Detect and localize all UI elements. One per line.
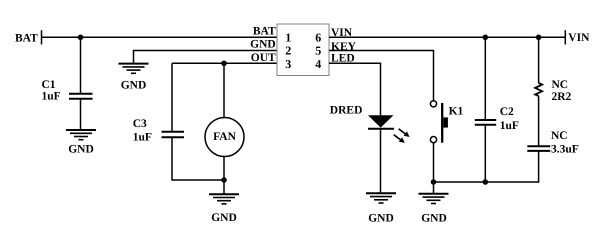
node junction C2 tap (483, 35, 489, 41)
wire C 3.3uF bottom (538, 151, 540, 183)
ground under DRED (366, 193, 396, 224)
wire bottom-right rail (434, 181, 539, 183)
svg-text:C2: C2 (500, 106, 514, 118)
port BAT (15, 30, 42, 44)
wire K1 ground drop (433, 182, 435, 194)
wire C2 top (484, 37, 486, 120)
node junction FAN tap on OUT (221, 61, 227, 67)
LED DRED (330, 105, 410, 143)
node junction C1 tap (78, 35, 84, 41)
wire R to C (538, 96, 540, 146)
wire BAT rail (42, 36, 278, 38)
svg-text:C3: C3 (133, 118, 147, 130)
capacitor C3 (133, 118, 184, 144)
svg-text:GND: GND (211, 212, 237, 224)
wire FAN bottom (223, 157, 225, 181)
ground under K1 (419, 194, 449, 225)
capacitor C2 (475, 106, 519, 132)
svg-text:GND: GND (250, 39, 276, 51)
wire K1 bottom (433, 143, 435, 182)
wire R top (538, 37, 540, 83)
capacitor NC 3.3uF (527, 130, 578, 156)
svg-text:DRED: DRED (330, 105, 363, 117)
svg-text:NC: NC (551, 130, 568, 142)
svg-text:1uF: 1uF (133, 132, 152, 144)
wire FAN ground drop (223, 180, 225, 194)
svg-text:GND: GND (368, 212, 394, 224)
svg-text:1: 1 (285, 30, 291, 44)
wire pin2 GND net (134, 51, 278, 63)
svg-text:KEY: KEY (331, 41, 357, 53)
wire C1 top (80, 37, 82, 93)
ground pin2 (119, 64, 149, 92)
node junction C2 rail (483, 179, 489, 185)
svg-text:GND: GND (121, 79, 147, 91)
svg-text:GND: GND (68, 144, 94, 156)
svg-text:4: 4 (315, 57, 321, 71)
port VIN (565, 30, 590, 44)
wire pin3 OUT net (172, 62, 277, 64)
resistor NC 2R2 (535, 79, 571, 103)
node junction K1 rail (431, 179, 437, 185)
wire LED net (329, 63, 381, 115)
svg-text:C1: C1 (42, 79, 56, 91)
ground under C1 (66, 130, 96, 156)
wire C2 bottom (484, 125, 486, 182)
op-amp U1 box (277, 24, 329, 76)
switch K1 (430, 101, 463, 143)
wire C3 bottom to rail (172, 137, 224, 180)
svg-text:GND: GND (421, 212, 447, 224)
svg-text:6: 6 (315, 30, 321, 44)
svg-text:3.3uF: 3.3uF (551, 144, 579, 156)
wire C1 bottom (80, 99, 82, 130)
wire C3 top (171, 63, 173, 131)
svg-text:BAT: BAT (253, 25, 276, 37)
ground under FAN (209, 194, 239, 224)
svg-text:2R2: 2R2 (552, 91, 572, 103)
svg-text:1uF: 1uF (42, 91, 61, 103)
wire KEY net (329, 51, 434, 101)
svg-text:OUT: OUT (251, 52, 276, 64)
svg-text:1uF: 1uF (500, 120, 519, 132)
wire FAN top (223, 63, 225, 118)
svg-text:FAN: FAN (213, 131, 236, 143)
capacitor C1 (42, 79, 93, 103)
svg-text:NC: NC (552, 79, 569, 91)
wire LED bottom (380, 129, 382, 194)
svg-text:3: 3 (285, 57, 291, 71)
svg-text:BAT: BAT (15, 33, 38, 45)
svg-text:VIN: VIN (568, 32, 590, 44)
svg-text:K1: K1 (449, 106, 464, 118)
svg-text:5: 5 (315, 44, 321, 58)
node junction FAN-C3 rail (221, 177, 227, 183)
motor FAN (205, 118, 244, 157)
wire VIN rail (329, 36, 565, 38)
svg-text:2: 2 (285, 44, 291, 58)
node junction R tap (536, 35, 542, 41)
